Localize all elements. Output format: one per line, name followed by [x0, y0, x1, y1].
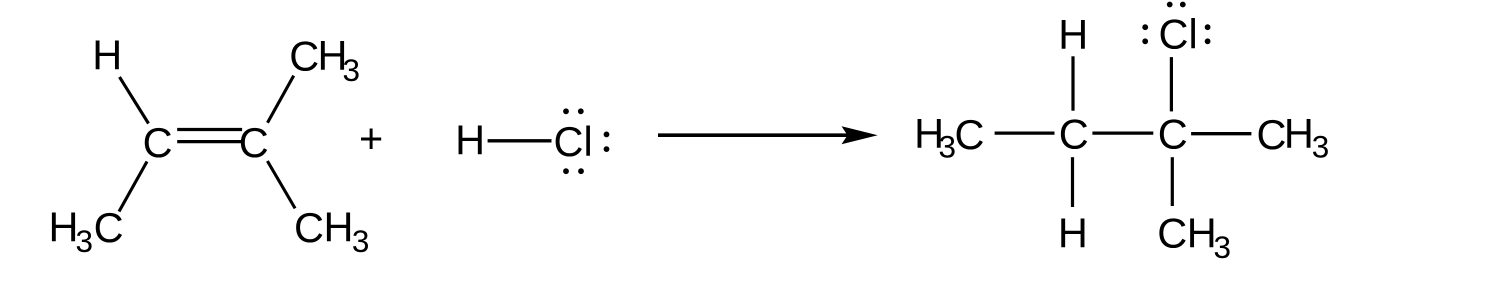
- bond product C3 to right CH3: [1191, 132, 1251, 135]
- svg-text:C: C: [1158, 111, 1188, 158]
- product chlorine lone pair dot, top pair right: [1180, 2, 1186, 8]
- svg-text:Cl: Cl: [554, 118, 593, 165]
- bond product H3C to CH carbon: [995, 131, 1055, 134]
- svg-text:C: C: [289, 33, 319, 80]
- reaction arrow shaft: [658, 133, 855, 137]
- svg-text:C: C: [1157, 209, 1187, 256]
- product chlorine lone pair dot, top pair left: [1167, 2, 1173, 8]
- svg-text:+: +: [359, 114, 383, 161]
- bond H to left alkene carbon: [120, 77, 149, 124]
- product chlorine lone pair dot, right pair lower: [1205, 38, 1211, 44]
- HCl chlorine lone pair dot, right pair upper: [604, 132, 610, 138]
- svg-text:C: C: [239, 119, 269, 166]
- svg-text:C: C: [955, 111, 985, 158]
- svg-text:3: 3: [352, 223, 370, 259]
- C=C double bond, upper line: [177, 128, 242, 131]
- bond right alkene carbon to top-right CH3: [268, 76, 294, 123]
- bond right alkene carbon to bottom-right CH3: [267, 161, 295, 208]
- svg-text:Cl: Cl: [1159, 11, 1198, 58]
- reaction arrow head: [842, 126, 878, 144]
- C=C double bond, lower line: [177, 140, 242, 143]
- vertical bond Cl to product C3: [1170, 57, 1173, 111]
- H-Cl single bond: [488, 139, 552, 142]
- vertical bond product C2 to lower H: [1071, 157, 1074, 207]
- svg-text:3: 3: [1214, 229, 1232, 265]
- svg-text:C: C: [143, 119, 173, 166]
- bond bottom-left H3C to left alkene carbon: [119, 162, 147, 212]
- bond product C2 to C3: [1092, 131, 1153, 134]
- svg-text:H: H: [49, 204, 79, 251]
- svg-text:3: 3: [76, 223, 94, 259]
- svg-text:3: 3: [1312, 128, 1330, 164]
- svg-text:C: C: [1059, 111, 1089, 158]
- svg-text:H: H: [1058, 209, 1088, 256]
- HCl chlorine lone pair dot, top pair right: [578, 108, 584, 114]
- svg-text:C: C: [294, 204, 324, 251]
- HCl chlorine lone pair dot, right pair lower: [604, 146, 610, 152]
- svg-text:H: H: [324, 204, 354, 251]
- svg-text:3: 3: [343, 52, 361, 88]
- HCl chlorine lone pair dot, bottom pair left: [563, 168, 569, 174]
- svg-text:3: 3: [939, 128, 957, 164]
- svg-text:H: H: [92, 31, 122, 78]
- product chlorine lone pair dot, left pair upper: [1142, 24, 1148, 30]
- svg-text:H: H: [1187, 209, 1217, 256]
- HCl chlorine lone pair dot, bottom pair right: [578, 168, 584, 174]
- svg-text:C: C: [1257, 111, 1287, 158]
- product chlorine lone pair dot, left pair lower: [1142, 38, 1148, 44]
- svg-text:H: H: [455, 117, 485, 164]
- product chlorine lone pair dot, right pair upper: [1205, 24, 1211, 30]
- svg-text:H: H: [1058, 11, 1088, 58]
- HCl chlorine lone pair dot, top pair left: [563, 108, 569, 114]
- svg-text:H: H: [1284, 110, 1314, 157]
- vertical bond upper H to product C2: [1071, 56, 1074, 110]
- vertical bond product C3 to bottom CH3: [1171, 157, 1174, 206]
